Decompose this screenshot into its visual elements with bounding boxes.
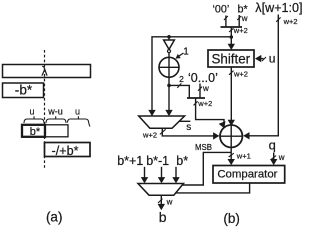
register cell right of b* <box>45 125 68 137</box>
wire junction to left mux input <box>148 37 231 116</box>
svg-text:w+2: w+2 <box>283 17 298 26</box>
control input u <box>255 51 275 65</box>
svg-text:1: 1 <box>183 46 189 57</box>
wire b*+1 to mux <box>141 167 148 184</box>
multiplexer s <box>139 116 192 133</box>
node junction on shifter input <box>230 35 234 39</box>
svg-text:q: q <box>269 137 276 152</box>
wire b* to mux <box>172 167 179 184</box>
svg-text:-b*: -b* <box>15 83 33 98</box>
dashed alignment line <box>44 50 46 168</box>
multiplexer output b <box>138 184 184 196</box>
wire branch width 2 <box>169 74 189 98</box>
svg-text:w+2: w+2 <box>233 70 248 79</box>
svg-text:u: u <box>29 107 34 117</box>
register lambda <box>3 65 91 79</box>
concatenation bar 2 <box>187 97 205 99</box>
svg-text:λ[w+1:0]: λ[w+1:0] <box>255 1 302 15</box>
shifter <box>208 50 254 67</box>
brace under left u <box>24 116 44 123</box>
svg-text:w: w <box>241 14 248 23</box>
wire adder to mux input <box>165 77 172 116</box>
comparator <box>213 166 285 184</box>
svg-text:w+1: w+1 <box>236 152 251 161</box>
svg-text:MSB: MSB <box>195 143 212 152</box>
svg-text:b*: b* <box>30 126 41 138</box>
svg-text:b: b <box>159 209 167 225</box>
svg-text:2: 2 <box>179 74 184 84</box>
svg-text:b*: b* <box>176 154 188 168</box>
svg-text:(b): (b) <box>223 211 240 226</box>
wire mux output width w <box>158 195 173 210</box>
svg-text:u: u <box>75 107 80 117</box>
wire MSB select <box>183 143 232 185</box>
svg-text:w-u: w-u <box>47 107 63 117</box>
wire to big adder, width w+2 <box>194 98 228 130</box>
wire from '0...0' width w <box>198 84 209 99</box>
svg-text:-/+b*: -/+b* <box>52 144 79 158</box>
wire concat to shifter, width w+2 <box>228 26 248 50</box>
svg-text:‘0...0’: ‘0...0’ <box>188 71 218 85</box>
input q width w <box>269 137 285 165</box>
register -b* <box>3 83 44 98</box>
node junction above inverter <box>167 35 171 39</box>
svg-text:Comparator: Comparator <box>217 168 277 180</box>
svg-text:w+2: w+2 <box>197 99 212 108</box>
wire b*-1 to mux <box>158 167 165 184</box>
adder (increment) <box>159 53 179 78</box>
svg-text:b*-1: b*-1 <box>146 154 169 168</box>
register -/+b* <box>45 143 91 159</box>
wire shifter to big adder, width w+2 <box>228 67 248 126</box>
inverter <box>164 37 175 53</box>
register b* (bold) <box>22 125 45 138</box>
svg-text:u: u <box>269 51 276 65</box>
svg-text:(a): (a) <box>46 210 63 225</box>
svg-text:Shifter: Shifter <box>211 52 250 67</box>
big adder <box>220 125 242 147</box>
svg-text:w: w <box>202 84 209 93</box>
svg-text:λ: λ <box>41 65 48 79</box>
wire comparator to mux select <box>176 183 249 193</box>
svg-text:w+2: w+2 <box>233 26 248 35</box>
svg-text:‘00’: ‘00’ <box>212 4 229 16</box>
wire mux to big adder, width w+2 <box>142 128 219 139</box>
svg-text:s: s <box>186 122 191 133</box>
annotation 1 with arrow <box>174 46 189 60</box>
wire from b* with width w <box>237 14 248 27</box>
svg-text:b*+1: b*+1 <box>117 154 143 168</box>
svg-text:w: w <box>278 153 285 162</box>
brace under w-u <box>46 116 66 123</box>
svg-text:w+2: w+2 <box>142 131 157 140</box>
concatenation bar <box>221 26 243 28</box>
brace under right u <box>68 116 91 126</box>
wire lambda to big adder, width w+2 <box>243 15 297 140</box>
wire from '00' <box>224 16 228 28</box>
node junction below adder <box>167 84 171 88</box>
svg-text:w: w <box>166 198 173 207</box>
wire big adder to comparator, width w+1 <box>228 147 251 165</box>
